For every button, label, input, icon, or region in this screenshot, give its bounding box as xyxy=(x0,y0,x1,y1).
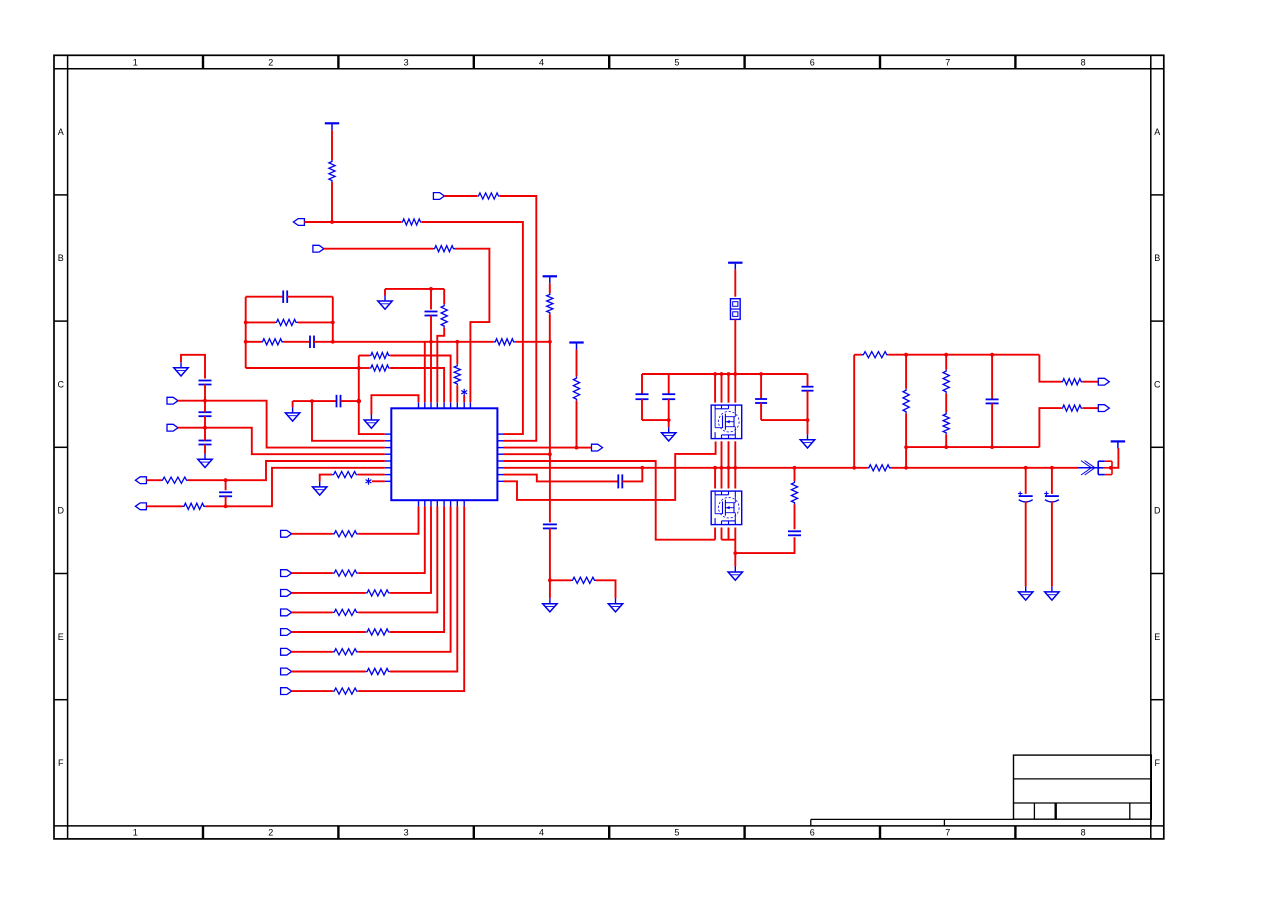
svg-text:4: 4 xyxy=(539,57,544,67)
svg-text:C: C xyxy=(58,379,65,389)
svg-text:E: E xyxy=(1154,632,1160,642)
svg-text:D: D xyxy=(58,506,65,516)
svg-text:3: 3 xyxy=(404,828,409,838)
svg-text:8: 8 xyxy=(1081,57,1086,67)
svg-text:6: 6 xyxy=(810,57,815,67)
svg-text:4: 4 xyxy=(539,828,544,838)
svg-text:1: 1 xyxy=(133,57,138,67)
svg-text:F: F xyxy=(58,758,64,768)
svg-text:B: B xyxy=(58,253,64,263)
svg-text:E: E xyxy=(58,632,64,642)
svg-text:5: 5 xyxy=(674,828,679,838)
svg-text:D: D xyxy=(1154,506,1161,516)
svg-text:A: A xyxy=(58,127,64,137)
svg-text:7: 7 xyxy=(945,57,950,67)
svg-text:8: 8 xyxy=(1081,828,1086,838)
svg-text:1: 1 xyxy=(133,828,138,838)
svg-text:6: 6 xyxy=(810,828,815,838)
svg-text:7: 7 xyxy=(945,828,950,838)
svg-text:F: F xyxy=(1155,758,1161,768)
svg-text:2: 2 xyxy=(268,828,273,838)
svg-text:2: 2 xyxy=(268,57,273,67)
svg-text:B: B xyxy=(1154,253,1160,263)
svg-text:A: A xyxy=(1154,127,1160,137)
svg-text:3: 3 xyxy=(404,57,409,67)
svg-text:5: 5 xyxy=(674,57,679,67)
svg-text:C: C xyxy=(1154,379,1161,389)
